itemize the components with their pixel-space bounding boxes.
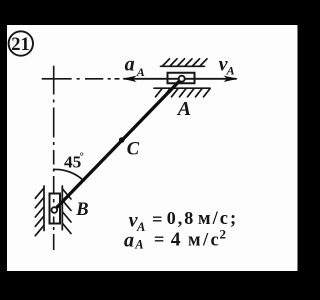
svg-text:21: 21 <box>11 35 30 55</box>
acceleration and velocity arrow shaft through slider A <box>124 78 236 80</box>
svg-text:a: a <box>125 53 135 75</box>
svg-text:м/с;: м/с; <box>198 209 238 229</box>
point C dot <box>119 137 125 143</box>
svg-text:A: A <box>136 65 145 79</box>
rod AB <box>54 79 181 210</box>
left wall hatching <box>35 188 43 235</box>
svg-text:4: 4 <box>171 230 181 251</box>
equation line 2 acceleration value <box>124 227 226 252</box>
pin B <box>52 207 58 213</box>
bottom hatching at A <box>156 89 211 97</box>
horizontal dash-dot axis segments <box>42 78 120 80</box>
45 degree arc <box>54 169 84 180</box>
top guide line at A <box>161 65 205 67</box>
right wall hatching <box>63 189 71 234</box>
svg-text:B: B <box>75 200 88 220</box>
svg-text:=: = <box>154 231 165 251</box>
arrowhead aA pointing left <box>122 76 136 82</box>
svg-text:0,8: 0,8 <box>167 208 196 228</box>
top hatching at A <box>163 59 208 66</box>
white scan area <box>7 25 298 271</box>
pin A <box>179 76 185 82</box>
left wall line at B <box>43 186 45 231</box>
right wall line at B <box>61 186 63 230</box>
svg-text:a: a <box>124 229 134 251</box>
svg-text:C: C <box>127 139 140 159</box>
slider block B <box>50 194 61 224</box>
svg-text:2: 2 <box>220 227 227 242</box>
bottom guide line at A <box>154 87 210 89</box>
slider block A <box>168 73 195 84</box>
equation line 1 velocity value <box>129 208 239 234</box>
svg-text:A: A <box>134 238 143 252</box>
svg-text:=: = <box>152 211 163 231</box>
svg-text:A: A <box>136 220 145 234</box>
svg-text:м/с: м/с <box>188 231 221 251</box>
arrowhead vA pointing right <box>224 76 238 82</box>
vertical dash-dot axis segments <box>53 66 55 250</box>
svg-text:A: A <box>176 98 191 120</box>
svg-text:A: A <box>226 64 235 78</box>
problem number badge circle <box>9 31 33 55</box>
svg-text:°: ° <box>80 151 84 163</box>
